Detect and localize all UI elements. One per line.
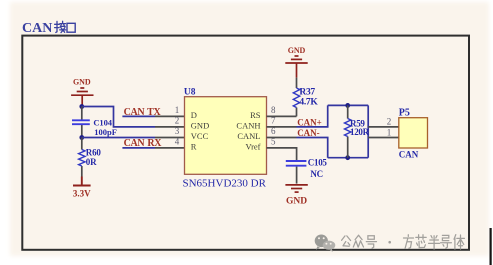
svg-text:GND: GND	[73, 78, 91, 87]
junction node B (3.3V net)	[79, 135, 84, 140]
wire CAN RX	[122, 147, 155, 149]
svg-text:CAN-: CAN-	[297, 128, 320, 138]
watermark	[315, 235, 465, 252]
title	[22, 21, 75, 36]
resistor R59	[345, 105, 370, 157]
wire GND net to pin2	[82, 107, 155, 127]
IC U8 body	[185, 97, 267, 175]
power port 3.3V	[73, 177, 91, 199]
svg-text:3: 3	[175, 126, 180, 136]
svg-text:CANL: CANL	[237, 131, 260, 141]
svg-text:U8: U8	[184, 87, 196, 97]
svg-text:GND: GND	[286, 197, 307, 207]
junction node bottom rail	[345, 155, 350, 160]
wire VCC row	[82, 137, 155, 139]
power GND symbol left	[71, 78, 93, 107]
gong	[342, 236, 351, 246]
svg-text:D: D	[191, 110, 197, 120]
wire right vertical	[367, 105, 369, 157]
svg-text:RS: RS	[250, 110, 261, 120]
svg-text:2: 2	[387, 116, 392, 126]
svg-text:R37: R37	[299, 87, 315, 97]
wire CAN-	[297, 138, 328, 158]
junction node A (GND net)	[79, 104, 84, 109]
ban	[429, 236, 440, 249]
black partial line right edge	[490, 228, 492, 265]
svg-text:0R: 0R	[86, 157, 97, 167]
wire CAN TX	[122, 115, 155, 117]
wire bottom rail	[328, 157, 369, 159]
junction node top rail	[345, 103, 350, 108]
pin name labels	[191, 110, 209, 152]
op-amp U8 pins right (gray stubs)	[267, 116, 297, 160]
capacitor C104	[72, 107, 117, 138]
svg-text:2: 2	[175, 115, 180, 125]
wire top rail	[328, 104, 369, 106]
pin numbers 8-5	[271, 105, 276, 146]
svg-text:3.3V: 3.3V	[73, 189, 91, 199]
op-amp U8 pins left (gray stubs)	[155, 116, 185, 147]
svg-text:NC: NC	[310, 169, 322, 179]
power GND symbol above R37	[285, 46, 307, 78]
svg-text:CAN+: CAN+	[297, 117, 322, 127]
zhong	[353, 235, 363, 247]
svg-text:4: 4	[175, 136, 180, 146]
口	[67, 23, 75, 32]
dot	[388, 241, 391, 244]
svg-text:VCC: VCC	[191, 131, 209, 141]
svg-text:Vref: Vref	[245, 141, 260, 151]
svg-text:4.7K: 4.7K	[299, 98, 318, 108]
svg-text:C105: C105	[308, 157, 328, 167]
svg-text:1: 1	[175, 105, 180, 115]
svg-text:GND: GND	[191, 120, 209, 130]
svg-text:120R: 120R	[350, 127, 370, 137]
pin numbers 2,1	[387, 116, 392, 137]
ti	[454, 235, 464, 249]
capacitor C105	[286, 157, 328, 183]
connector P5 pins (gray stubs)	[368, 127, 399, 138]
resistor R37	[293, 78, 318, 117]
svg-text:R: R	[191, 141, 197, 151]
dao	[441, 235, 452, 248]
svg-text:SN65HVD230 DR: SN65HVD230 DR	[183, 178, 267, 190]
pin numbers 1-4	[175, 105, 180, 146]
power GND symbol below C105	[285, 185, 307, 207]
resistor R60	[79, 138, 102, 177]
svg-text:CAN: CAN	[22, 21, 52, 36]
hao	[366, 236, 376, 248]
svg-text:CAN: CAN	[399, 150, 419, 160]
svg-text:1: 1	[387, 128, 392, 138]
connector P5 body	[399, 118, 428, 148]
svg-text:GND: GND	[288, 46, 306, 55]
fang	[404, 235, 414, 249]
svg-text:8: 8	[271, 105, 276, 115]
svg-text:CANH: CANH	[236, 120, 260, 130]
svg-text:100pF: 100pF	[94, 127, 117, 137]
wire CAN+	[297, 105, 328, 127]
svg-text:P5: P5	[399, 107, 410, 118]
sheet frame	[22, 36, 469, 250]
接	[55, 21, 60, 32]
xin	[416, 235, 426, 248]
